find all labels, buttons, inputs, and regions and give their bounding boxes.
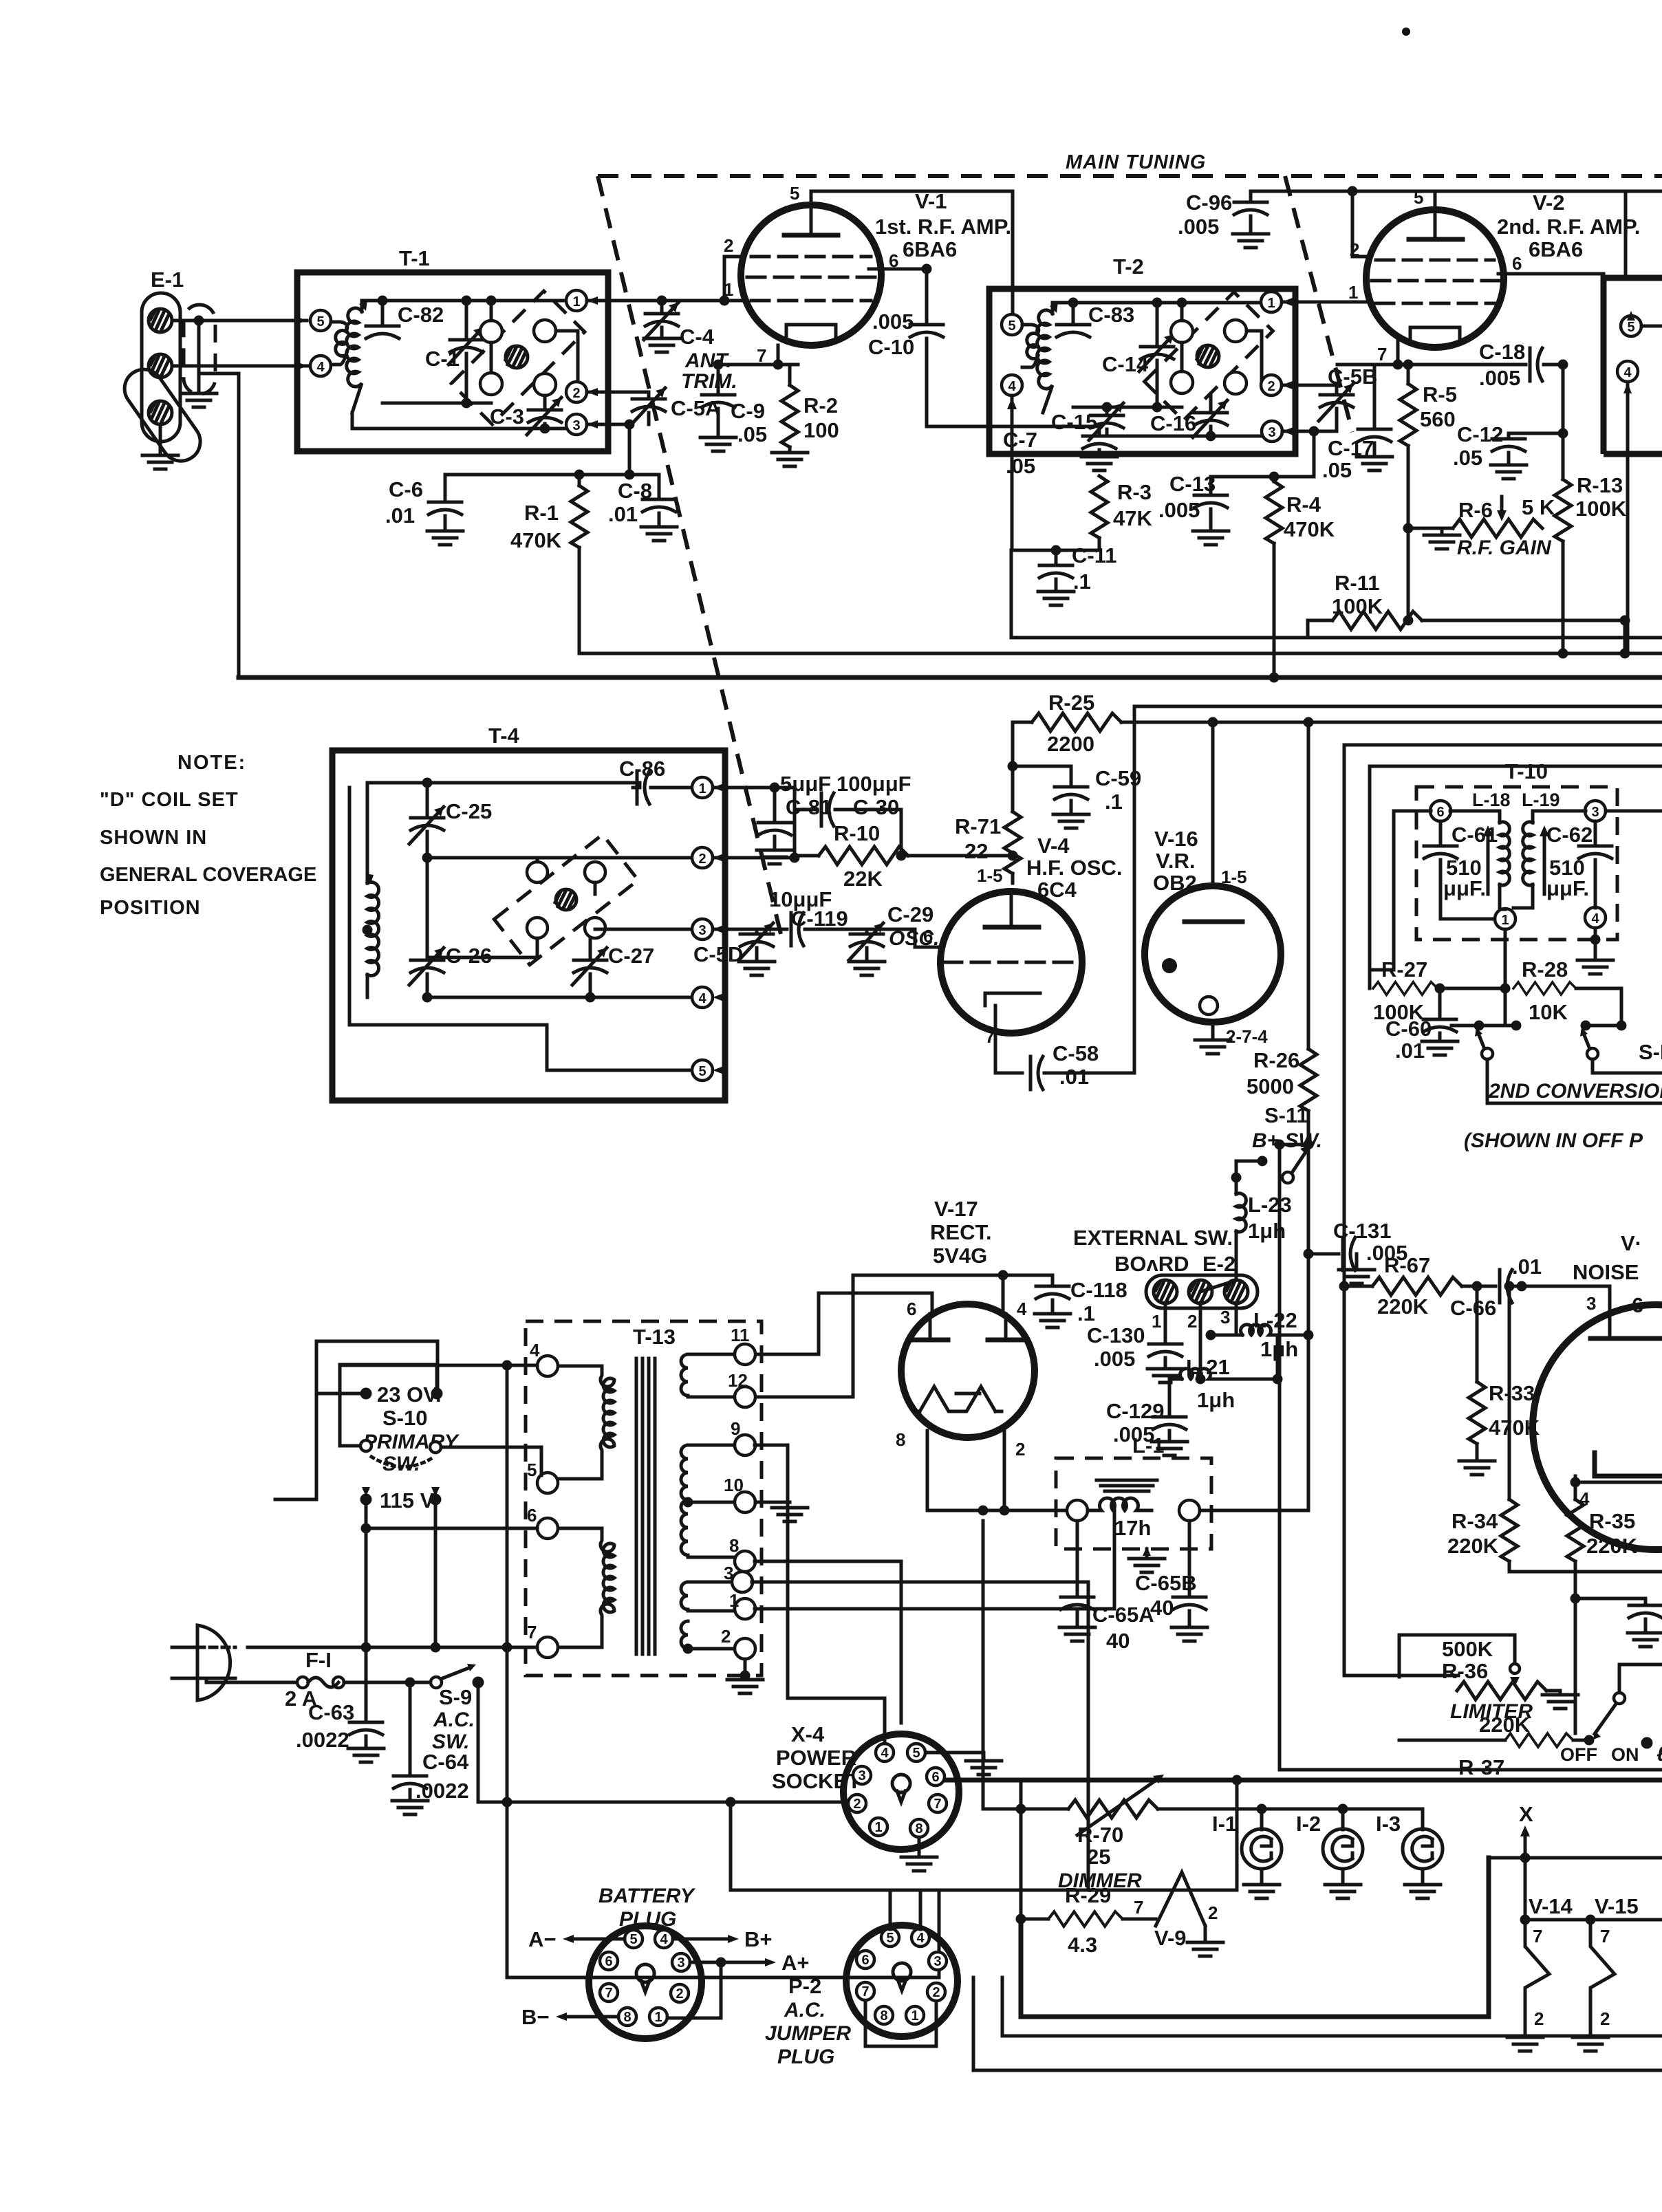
X-4 pin 2 xyxy=(848,1794,866,1812)
svg-text:1: 1 xyxy=(572,294,580,310)
svg-text:8: 8 xyxy=(880,2008,887,2024)
X-4 pin 7 xyxy=(929,1794,947,1812)
capacitor C-6 xyxy=(385,475,463,545)
svg-text:I-2: I-2 xyxy=(1296,1812,1321,1836)
svg-text:R-71: R-71 xyxy=(955,814,1001,838)
svg-text:C-130: C-130 xyxy=(1087,1323,1145,1347)
svg-text:C-5D: C-5D xyxy=(693,942,743,966)
variable capacitor C-29 OSC. xyxy=(849,902,939,975)
svg-text:C-59: C-59 xyxy=(1095,766,1141,790)
capacitor C-11 .1 xyxy=(1038,543,1116,605)
resistor R-29 4.3 xyxy=(1016,1809,1156,1957)
svg-text:2: 2 xyxy=(1534,2008,1544,2029)
svg-text:4: 4 xyxy=(916,1931,925,1946)
svg-text:1st. R.F. AMP.: 1st. R.F. AMP. xyxy=(875,215,1011,239)
svg-text:5: 5 xyxy=(316,314,324,329)
svg-text:C-17: C-17 xyxy=(1328,436,1374,460)
X-4 pin 6 xyxy=(927,1768,945,1786)
svg-text:A.C.: A.C. xyxy=(784,1999,825,2021)
V-2 labels xyxy=(1497,191,1640,261)
svg-text:7: 7 xyxy=(527,1622,537,1642)
svg-text:JUMPER: JUMPER xyxy=(765,2022,851,2045)
P-2 feed stubs xyxy=(890,1890,920,1929)
tube V-17 envelope xyxy=(901,1304,1035,1438)
wire V-1 pin2 loop xyxy=(724,257,744,301)
svg-text:6: 6 xyxy=(605,1954,612,1969)
T-10 terminal 6 xyxy=(1430,801,1451,821)
svg-text:4: 4 xyxy=(1591,911,1599,926)
T-4 inner wires xyxy=(349,783,640,1070)
svg-text:.005: .005 xyxy=(1094,1347,1135,1371)
resistor R-67 220K xyxy=(1344,1253,1496,1319)
rotor contact xyxy=(585,862,605,882)
T-2 terminal 5 xyxy=(1002,314,1022,335)
svg-text:SOCKET: SOCKET xyxy=(772,1769,861,1793)
svg-text:BOʌRD: BOʌRD xyxy=(1114,1252,1189,1276)
svg-text:C-15: C-15 xyxy=(1051,410,1097,434)
rotor hatched plate xyxy=(1197,345,1219,367)
svg-text:L-19: L-19 xyxy=(1522,790,1560,810)
terminal 5 (screen box) xyxy=(1621,311,1662,336)
svg-text:C-7: C-7 xyxy=(1003,428,1037,452)
lead A+ xyxy=(667,1951,810,2018)
svg-text:S-10: S-10 xyxy=(382,1406,427,1430)
svg-text:R-1: R-1 xyxy=(524,501,559,525)
rotor contact xyxy=(585,918,605,938)
T-13 HV secondary winding xyxy=(681,1354,735,1649)
rotor contact xyxy=(1171,321,1193,343)
svg-text:2: 2 xyxy=(721,1626,731,1647)
T-13 primary winding upper xyxy=(558,1366,614,1479)
tube V noise limiter (partial at right edge) xyxy=(1533,1305,1662,1550)
V-16 starter dot xyxy=(1162,958,1177,973)
wire B+ branch rail xyxy=(1344,745,1662,1286)
svg-text:B−: B− xyxy=(521,2005,550,2029)
V-4 cathode xyxy=(985,993,1040,1006)
svg-text:L-18: L-18 xyxy=(1472,790,1511,810)
svg-text:2nd. R.F. AMP.: 2nd. R.F. AMP. xyxy=(1497,215,1640,239)
svg-text:4: 4 xyxy=(316,360,325,375)
tube V-2 envelope xyxy=(1366,210,1504,347)
svg-text:E-1: E-1 xyxy=(151,268,184,292)
svg-text:C-13: C-13 xyxy=(1169,472,1216,496)
heavy bottom rail xyxy=(947,1778,1662,1783)
svg-text:4: 4 xyxy=(1008,379,1016,394)
wire heater rail V-14/V-15 xyxy=(1525,1858,1662,1920)
svg-text:40: 40 xyxy=(1150,1596,1174,1620)
rotor contact xyxy=(534,320,556,342)
wire T-2 pin3 junction xyxy=(1282,431,1337,477)
P-2 pin 8 xyxy=(875,2006,893,2024)
svg-text:C-5A: C-5A xyxy=(671,396,720,420)
svg-text:C-65A: C-65A xyxy=(1092,1603,1154,1627)
capacitor C-12 .05 xyxy=(1453,422,1563,479)
svg-text:C-30: C-30 xyxy=(853,795,899,819)
svg-text:6: 6 xyxy=(1512,253,1522,274)
V-17 plates xyxy=(913,1314,1023,1340)
svg-text:OFF: OFF xyxy=(1560,1744,1597,1765)
T-10 terminal 1 xyxy=(1495,909,1515,929)
capacitor C-61 510uuF xyxy=(1424,821,1498,919)
svg-text:EXTERNAL SW.: EXTERNAL SW. xyxy=(1073,1226,1233,1250)
svg-text:25: 25 xyxy=(1087,1845,1110,1869)
svg-text:C-27: C-27 xyxy=(608,944,654,968)
svg-text:6BA6: 6BA6 xyxy=(903,237,957,261)
ground (T-10 terminal 4) xyxy=(1577,928,1613,974)
svg-text:4: 4 xyxy=(698,991,706,1006)
svg-text:C-131: C-131 xyxy=(1333,1219,1391,1243)
svg-text:.1: .1 xyxy=(1073,570,1091,594)
wire S-9 to X-4 xyxy=(478,1682,507,1802)
T-4 coil xyxy=(365,874,379,976)
wire osc plate rail xyxy=(1134,706,1662,1071)
svg-text:R-25: R-25 xyxy=(1048,691,1094,715)
svg-text:11: 11 xyxy=(731,1325,750,1345)
bottom rail 1 xyxy=(1002,1977,1662,2036)
battery plug pin 1 xyxy=(649,2008,667,2026)
wire to X-4 pin 2 xyxy=(507,1801,845,1804)
resistor R-35 220K xyxy=(1567,1499,1638,1733)
svg-text:10K: 10K xyxy=(1529,1000,1568,1024)
V-4 labels xyxy=(1026,834,1123,902)
svg-text:4.3: 4.3 xyxy=(1068,1933,1097,1957)
capacitor C-9 xyxy=(700,365,767,451)
svg-text:22K: 22K xyxy=(843,867,883,891)
svg-text:6: 6 xyxy=(1436,805,1444,820)
rotor contact xyxy=(534,373,556,395)
svg-text:R-36: R-36 xyxy=(1442,1659,1488,1683)
svg-text:1μh: 1μh xyxy=(1197,1388,1235,1412)
T-1 primary coil xyxy=(331,322,347,365)
P-2 pin 1 xyxy=(906,2006,924,2024)
T-2 terminal 2 xyxy=(1261,375,1293,395)
T-10 terminal 4 xyxy=(1585,907,1606,928)
resistor R-13 100K xyxy=(1555,473,1627,653)
capacitor C-83 xyxy=(1057,303,1134,337)
svg-text:1: 1 xyxy=(654,2010,662,2025)
svg-text:3: 3 xyxy=(1586,1293,1596,1314)
pin number labels V-2 xyxy=(1348,187,1522,365)
svg-text:R-29: R-29 xyxy=(1065,1883,1111,1907)
svg-text:F-I: F-I xyxy=(305,1648,332,1672)
pin number labels V-1 xyxy=(724,183,898,366)
svg-text:R-4: R-4 xyxy=(1286,492,1321,517)
wire coils to terminals xyxy=(1450,811,1586,909)
battery plug xyxy=(589,1885,702,2039)
svg-text:.005: .005 xyxy=(1178,215,1219,239)
wire shield to ground bus xyxy=(199,373,239,677)
wire T-13 term 11 to V-17 pin6 xyxy=(755,1293,932,1354)
T-1 terminal 4 xyxy=(310,356,331,376)
svg-text:5: 5 xyxy=(912,1746,920,1761)
svg-text:C-66: C-66 xyxy=(1450,1296,1496,1320)
resistor R-4 470K xyxy=(1266,477,1335,677)
svg-text:5: 5 xyxy=(1008,318,1015,334)
svg-text:R-13: R-13 xyxy=(1577,473,1623,497)
svg-text:V-15: V-15 xyxy=(1595,1894,1639,1918)
wire T-4 pin1 to C-81/C-30 xyxy=(713,786,795,790)
svg-text:PLUG: PLUG xyxy=(777,2046,834,2068)
T-1 terminal 3 xyxy=(566,414,598,435)
P-2 pin 4 xyxy=(911,1929,929,1947)
svg-text:ON: ON xyxy=(1611,1744,1639,1765)
svg-text:100: 100 xyxy=(803,418,839,442)
svg-text:T-10: T-10 xyxy=(1505,759,1548,783)
T-2 terminal 3 xyxy=(1262,421,1293,442)
wire V-17 pin2 xyxy=(1003,1431,1006,1510)
wire E-1 pin to T-1 terminal 4 xyxy=(173,362,307,370)
T-4 terminal 2 xyxy=(692,847,724,868)
jumper plug P-2 xyxy=(765,1925,958,2068)
svg-text:.1: .1 xyxy=(1105,790,1123,814)
resistor R-34 220K xyxy=(1447,1286,1662,1572)
wire T-2 pin1 to V-2 grid xyxy=(1282,301,1370,304)
rotor hatched plate xyxy=(506,346,528,368)
svg-text:.0022: .0022 xyxy=(415,1779,469,1803)
T-2 terminal 1 xyxy=(1261,292,1293,312)
svg-text:NOTE:: NOTE: xyxy=(177,752,246,774)
battery plug pin 4 xyxy=(655,1930,673,1948)
svg-text:X: X xyxy=(1519,1802,1533,1826)
P-2 jumper bracket xyxy=(865,2002,936,2046)
tube V-4 envelope xyxy=(940,891,1082,1033)
T-2 primary coil xyxy=(1022,325,1039,367)
svg-text:C-65B: C-65B xyxy=(1135,1571,1197,1595)
wire terminal 1 down xyxy=(1504,929,1507,1026)
T-1 rotor (dashed) xyxy=(451,291,585,424)
svg-text:8: 8 xyxy=(896,1429,905,1450)
svg-text:9: 9 xyxy=(731,1418,740,1439)
svg-text:ANT.: ANT. xyxy=(684,349,732,372)
resistor R-27 100K xyxy=(1373,957,1505,1024)
capacitor C-7 .05 xyxy=(1003,426,1117,478)
bus wire (AVC) xyxy=(579,652,1662,655)
heavy B- feed down right side xyxy=(1344,1286,1458,1676)
svg-text:V-14: V-14 xyxy=(1529,1894,1573,1918)
svg-text:V-17: V-17 xyxy=(934,1197,978,1221)
svg-text:2: 2 xyxy=(1267,379,1275,394)
wire T-4 pin2 to osc grid xyxy=(713,856,795,860)
svg-text:2: 2 xyxy=(698,852,706,867)
capacitor C-86 (series) xyxy=(619,757,693,804)
T-13 terminal 1 xyxy=(729,1590,755,1619)
svg-text:C-129: C-129 xyxy=(1106,1399,1164,1423)
S-10 contacts xyxy=(360,1440,442,1506)
svg-text:μμF.: μμF. xyxy=(1443,876,1486,900)
capacitor C-17 .05 xyxy=(1322,365,1392,482)
svg-text:.05: .05 xyxy=(1453,446,1482,470)
wire R-25 to C-59/R-71 xyxy=(1011,722,1015,766)
L-1 winding xyxy=(1088,1480,1157,1540)
svg-text:C-18: C-18 xyxy=(1479,340,1525,364)
capacitor (right edge, detector) xyxy=(1575,1598,1662,1647)
svg-text:2: 2 xyxy=(1015,1439,1025,1460)
svg-text:100K: 100K xyxy=(1332,594,1383,618)
svg-text:3: 3 xyxy=(1591,805,1599,820)
svg-text:17h: 17h xyxy=(1114,1516,1151,1540)
resistor R-5 560 xyxy=(1400,365,1457,620)
resistor R-10 22K (parallel) xyxy=(795,810,1013,891)
P-2 pin 7 xyxy=(856,1982,874,2000)
svg-text:C-60: C-60 xyxy=(1385,1017,1432,1041)
wire AC line lower xyxy=(206,1678,297,1682)
resistor R-26 5000 xyxy=(1246,722,1317,1145)
switch S-10 wiring loop xyxy=(275,1341,438,1647)
rotor contact xyxy=(1171,371,1193,393)
T-1 secondary bottom wire xyxy=(352,413,567,429)
svg-text:C-4: C-4 xyxy=(680,325,715,349)
T-13 terminal 11 xyxy=(731,1325,755,1365)
svg-text:5: 5 xyxy=(1627,320,1634,335)
svg-text:L-22: L-22 xyxy=(1253,1308,1297,1332)
bottom rail 2 xyxy=(973,1977,1662,2070)
svg-text:P-2: P-2 xyxy=(788,1974,821,1998)
capacitor C-81 5uuF xyxy=(757,772,832,864)
svg-text:V.R.: V.R. xyxy=(1156,849,1195,873)
svg-text:I-3: I-3 xyxy=(1376,1812,1401,1836)
dashed gang link to C-5B xyxy=(1285,176,1352,432)
filter rail to L-1 xyxy=(927,1509,1068,1512)
label 2ND CONVERSION xyxy=(1487,1080,1662,1103)
wire S-10 to T-13 terminal 5 xyxy=(441,1447,541,1475)
svg-text:C-119: C-119 xyxy=(791,907,848,931)
variable capacitor C-4 xyxy=(644,301,715,352)
wire V-17 pin8 (cathode) to filter xyxy=(926,1431,929,1510)
svg-text:3: 3 xyxy=(858,1768,865,1783)
noise tube grid cap wire xyxy=(1608,1286,1612,1336)
svg-text:GENERAL COVERAGE: GENERAL COVERAGE xyxy=(100,864,316,886)
capacitor C-82 xyxy=(366,301,444,338)
svg-text:1: 1 xyxy=(911,2008,918,2024)
ground (E-1 bottom terminal) xyxy=(142,424,178,469)
svg-text:R-67: R-67 xyxy=(1384,1253,1430,1277)
svg-text:R-70: R-70 xyxy=(1077,1823,1123,1847)
choke L-1 (dashed box) xyxy=(1056,1433,1211,1549)
V-4 plate xyxy=(985,891,1039,927)
variable capacitor C-26 xyxy=(409,858,492,997)
wire V-1 cathode pin7 xyxy=(718,345,798,365)
svg-text:C-82: C-82 xyxy=(398,303,444,327)
svg-text:PRIMARY: PRIMARY xyxy=(363,1431,460,1453)
svg-text:3: 3 xyxy=(698,923,706,938)
capacitor C-18 .005 (series) xyxy=(1479,340,1563,390)
svg-text:S-I: S-I xyxy=(1639,1040,1662,1064)
svg-text:6C4: 6C4 xyxy=(1037,878,1077,902)
wire V-2 pin6 to screen box xyxy=(1498,272,1604,276)
variable capacitor C-16 xyxy=(1150,395,1227,437)
svg-text:R-28: R-28 xyxy=(1522,957,1568,982)
ground (X-4 bottom) xyxy=(901,1837,937,1871)
svg-text:7: 7 xyxy=(1377,344,1387,365)
svg-text:5: 5 xyxy=(629,1932,637,1947)
battery plug pin 6 xyxy=(600,1952,618,1970)
svg-text:100K: 100K xyxy=(1575,497,1627,521)
svg-text:.005: .005 xyxy=(1158,498,1200,522)
wire screen branch rail xyxy=(1370,766,1662,988)
wire from limiter area down xyxy=(1280,1145,1662,1770)
V-16 labels xyxy=(1153,827,1247,895)
svg-text:R-10: R-10 xyxy=(834,821,880,845)
capacitor C-64 .0022 xyxy=(392,1682,469,1814)
svg-text:6BA6: 6BA6 xyxy=(1529,237,1583,261)
svg-text:S-9: S-9 xyxy=(439,1685,472,1709)
svg-text:V-4: V-4 xyxy=(1037,834,1070,858)
antenna connector E-1 xyxy=(117,268,208,468)
svg-text:R-6: R-6 xyxy=(1458,498,1493,522)
lamp I-2 xyxy=(1296,1809,1363,1898)
lamp I-3 xyxy=(1376,1809,1443,1898)
svg-text:10: 10 xyxy=(724,1475,744,1495)
battery plug pin 7 xyxy=(600,1984,618,2002)
T-13 core xyxy=(636,1358,655,1654)
V-16 cathode circle xyxy=(1200,997,1218,1015)
svg-text:3: 3 xyxy=(572,418,580,433)
T-2 inner bottom wire xyxy=(1073,406,1182,409)
svg-text:40: 40 xyxy=(1106,1629,1130,1653)
T-2 inner top wire xyxy=(1053,301,1262,305)
svg-text:7: 7 xyxy=(933,1797,941,1812)
rotor wires xyxy=(1182,303,1262,380)
svg-text:R-2: R-2 xyxy=(803,393,838,418)
svg-text:C-5B: C-5B xyxy=(1328,365,1377,389)
svg-text:S-11: S-11 xyxy=(1264,1103,1308,1127)
wire T-13 term 12 to V-17 pin4 xyxy=(755,1275,1053,1397)
svg-text:1-5: 1-5 xyxy=(977,865,1003,886)
wire C-6/R-1/C-8 rail xyxy=(445,473,659,477)
svg-text:C-10: C-10 xyxy=(868,335,914,359)
svg-text:2: 2 xyxy=(1187,1311,1197,1332)
wire to screen box xyxy=(1624,191,1628,278)
svg-text:C-118: C-118 xyxy=(1070,1278,1127,1302)
capacitor C-10 .005 (series) xyxy=(868,310,943,426)
svg-text:5: 5 xyxy=(698,1064,706,1079)
heater V-14 xyxy=(1507,1894,1573,2051)
capacitor C-96 .005 xyxy=(1178,191,1269,248)
rotor hatched plate xyxy=(555,889,576,910)
X-4 pin 1 xyxy=(870,1818,887,1836)
svg-text:5μμF: 5μμF xyxy=(780,772,831,796)
wire V-16 to ground xyxy=(1195,1022,1268,1054)
svg-text:3: 3 xyxy=(1220,1307,1230,1327)
svg-text:2ND CONVERSION: 2ND CONVERSION xyxy=(1488,1080,1662,1103)
lead B+ xyxy=(673,1927,773,1951)
svg-text:V-9: V-9 xyxy=(1154,1926,1187,1950)
wire V-1 pin6 xyxy=(869,269,927,322)
svg-text:.05: .05 xyxy=(1322,458,1352,482)
capacitor C-65B 40 xyxy=(1135,1521,1207,1641)
wire L-1 output xyxy=(1200,1145,1308,1510)
svg-text:.0022: .0022 xyxy=(296,1728,349,1752)
svg-text:C-83: C-83 xyxy=(1088,303,1134,327)
svg-text:1: 1 xyxy=(1348,282,1358,303)
choke L-21 1uh xyxy=(1169,1303,1277,1412)
svg-text:6: 6 xyxy=(931,1770,939,1785)
transformer T-10 (dashed shield) xyxy=(1416,759,1617,940)
svg-text:47K: 47K xyxy=(1113,506,1152,530)
coil L-18 xyxy=(1483,811,1509,909)
svg-text:C-11: C-11 xyxy=(1072,543,1116,567)
svg-text:.005: .005 xyxy=(872,310,914,334)
T-13 primary winding lower xyxy=(558,1528,614,1647)
X-4 pin 5 xyxy=(907,1744,925,1761)
svg-text:3: 3 xyxy=(1268,425,1275,440)
svg-text:5: 5 xyxy=(1414,187,1423,208)
wire S-10 to T-13 terminal 6 xyxy=(366,1527,537,1530)
X-4 pin 8 xyxy=(910,1819,928,1837)
bus wire (B minus, heavy) xyxy=(239,675,1662,680)
svg-text:NOISE: NOISE xyxy=(1573,1260,1639,1284)
capacitor C-60 .01 xyxy=(1385,988,1458,1063)
